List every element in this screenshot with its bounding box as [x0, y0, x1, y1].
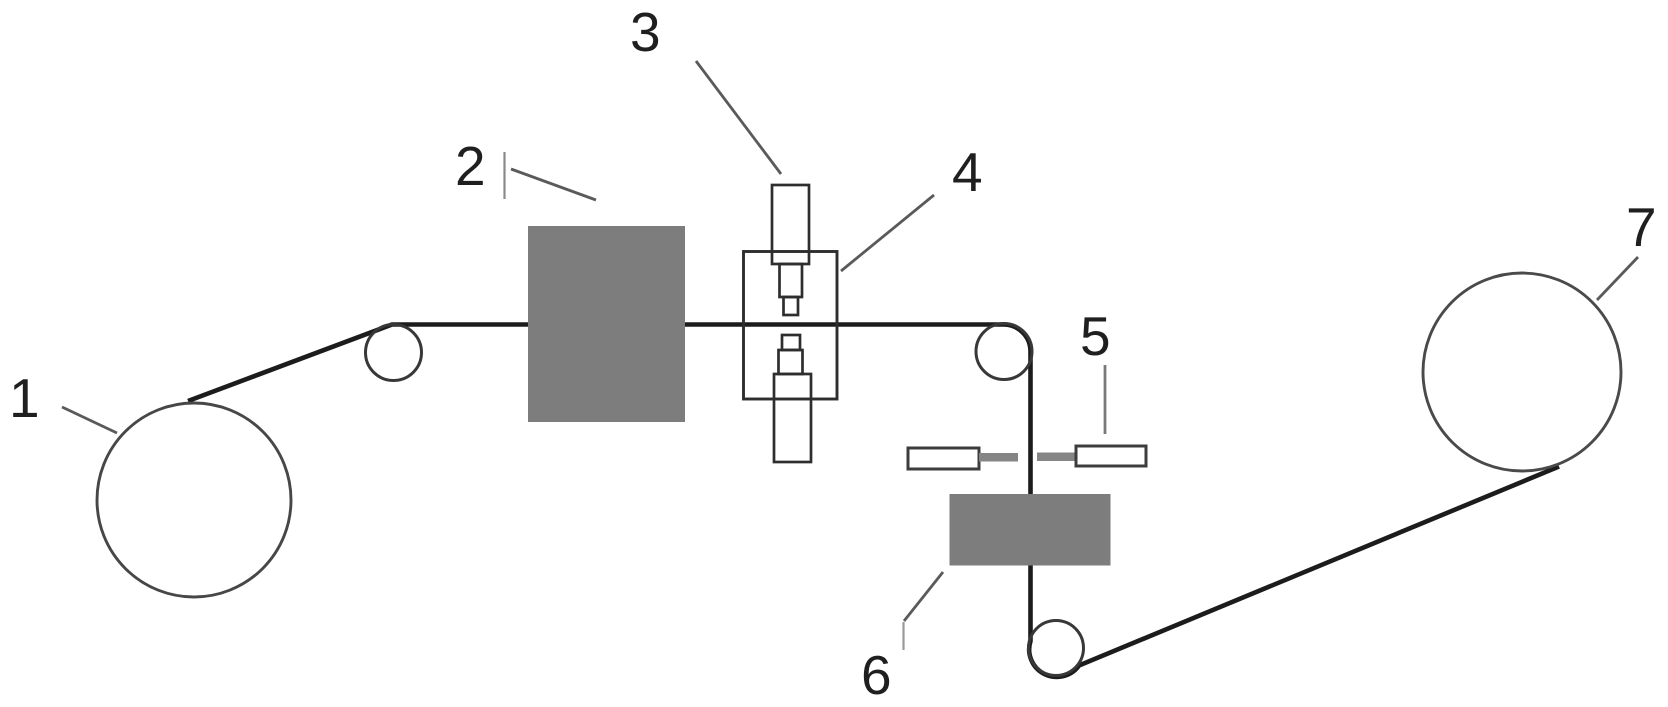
- leader 6 tick: [902, 622, 904, 650]
- nozzle lower large: [774, 374, 811, 462]
- svg-text:7: 7: [1626, 196, 1657, 258]
- wire web path: [188, 325, 1559, 677]
- chamber box 4: [744, 252, 838, 400]
- leader 6: [904, 572, 943, 621]
- svg-text:6: 6: [861, 644, 892, 706]
- stub left: [979, 453, 1018, 462]
- leader 7: [1597, 257, 1638, 300]
- nozzle 3 upper mid: [780, 264, 803, 297]
- svg-text:3: 3: [630, 1, 661, 63]
- nozzle lower mid: [779, 350, 803, 374]
- leader 4: [841, 195, 934, 271]
- leader 5: [1104, 365, 1107, 434]
- nozzle 3 upper large: [772, 185, 809, 264]
- leader 2 tick: [503, 152, 505, 199]
- svg-text:1: 1: [9, 367, 40, 429]
- leader 2: [511, 169, 596, 200]
- dryer box 6: [950, 494, 1111, 566]
- stub right: [1037, 453, 1076, 462]
- svg-text:4: 4: [952, 141, 983, 203]
- svg-text:2: 2: [455, 135, 486, 197]
- roller A: [366, 325, 422, 381]
- roller B: [976, 324, 1032, 380]
- roll 1: [97, 403, 291, 597]
- leader 3: [696, 61, 781, 174]
- roll 7: [1423, 273, 1621, 471]
- bar 5 right: [1076, 446, 1146, 466]
- svg-text:5: 5: [1080, 305, 1111, 367]
- bar 5 left: [908, 448, 979, 469]
- nozzle 3 upper tip: [784, 297, 799, 315]
- nozzle lower tip: [782, 335, 800, 350]
- coater box 2: [528, 226, 685, 422]
- leader 1: [62, 407, 117, 433]
- roller C: [1029, 621, 1084, 676]
